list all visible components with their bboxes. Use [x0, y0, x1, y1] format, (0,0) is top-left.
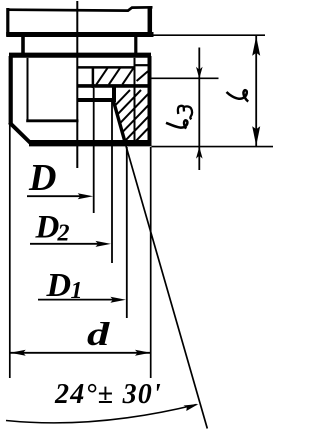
- hatch lower zone: [78, 90, 185, 144]
- d dimension line: [11, 352, 151, 354]
- l top reference line: [154, 34, 266, 36]
- svg-text:d: d: [87, 316, 111, 352]
- body left edge: [9, 56, 13, 125]
- bore step line right jog: [135, 64, 149, 66]
- label l3 (script ell-3 rotated): [166, 120, 187, 128]
- centerline: [76, 1, 78, 168]
- D2 dimension line with arrow: [30, 243, 99, 245]
- head bottom band: [6, 32, 153, 37]
- l3 dimension line: [198, 48, 200, 171]
- left shoulder line: [26, 119, 78, 122]
- D1 dimension line with arrow: [38, 299, 114, 301]
- svg-text:1: 1: [71, 278, 83, 304]
- svg-text:D: D: [28, 157, 56, 199]
- angle arc: [6, 405, 197, 423]
- angle leader diagonal: [126, 146, 207, 429]
- l3 arrow up (outside below): [196, 147, 203, 159]
- svg-text:D: D: [35, 210, 60, 246]
- left inner vertical: [27, 58, 29, 121]
- bore wall V2: [92, 68, 95, 88]
- bore step line: [77, 66, 136, 69]
- D2 extension line: [111, 102, 113, 264]
- head top edge: [7, 7, 153, 10]
- svg-text:D: D: [46, 267, 72, 304]
- label l (script ell rotated): [227, 90, 249, 101]
- hatch upper zone: [96, 68, 134, 85]
- cone seat line: [113, 101, 125, 145]
- lower band: [77, 98, 117, 102]
- l3 arrow down (outside above): [196, 67, 203, 79]
- l bottom reference line: [152, 146, 274, 148]
- d right extension line: [150, 147, 152, 378]
- D extension line: [93, 88, 95, 213]
- d arrow right: [135, 350, 151, 356]
- shoulder band: [77, 84, 149, 88]
- D dimension line with arrow: [27, 195, 82, 197]
- l arrow down: [252, 126, 260, 146]
- D1 extension line: [126, 147, 128, 318]
- neck left edge: [21, 37, 25, 53]
- l arrow up: [252, 36, 260, 56]
- head left edge: [6, 8, 9, 36]
- head right edge: [148, 7, 153, 35]
- chamfer: [10, 123, 32, 145]
- bottom band: [29, 140, 152, 146]
- bore wall V3: [112, 88, 116, 102]
- d left extension line: [9, 125, 11, 379]
- angle arc arrowhead: [184, 404, 199, 411]
- body top band: [9, 53, 151, 58]
- neck right edge: [134, 37, 137, 53]
- svg-text:2: 2: [57, 221, 70, 247]
- thread minor line right: [134, 58, 136, 140]
- body right edge: [148, 56, 152, 145]
- l3 top reference line: [151, 77, 219, 79]
- l dimension line: [255, 36, 257, 146]
- svg-text:24°± 30': 24°± 30': [54, 379, 162, 410]
- hatch right column: [137, 71, 148, 81]
- d arrow left: [10, 350, 26, 356]
